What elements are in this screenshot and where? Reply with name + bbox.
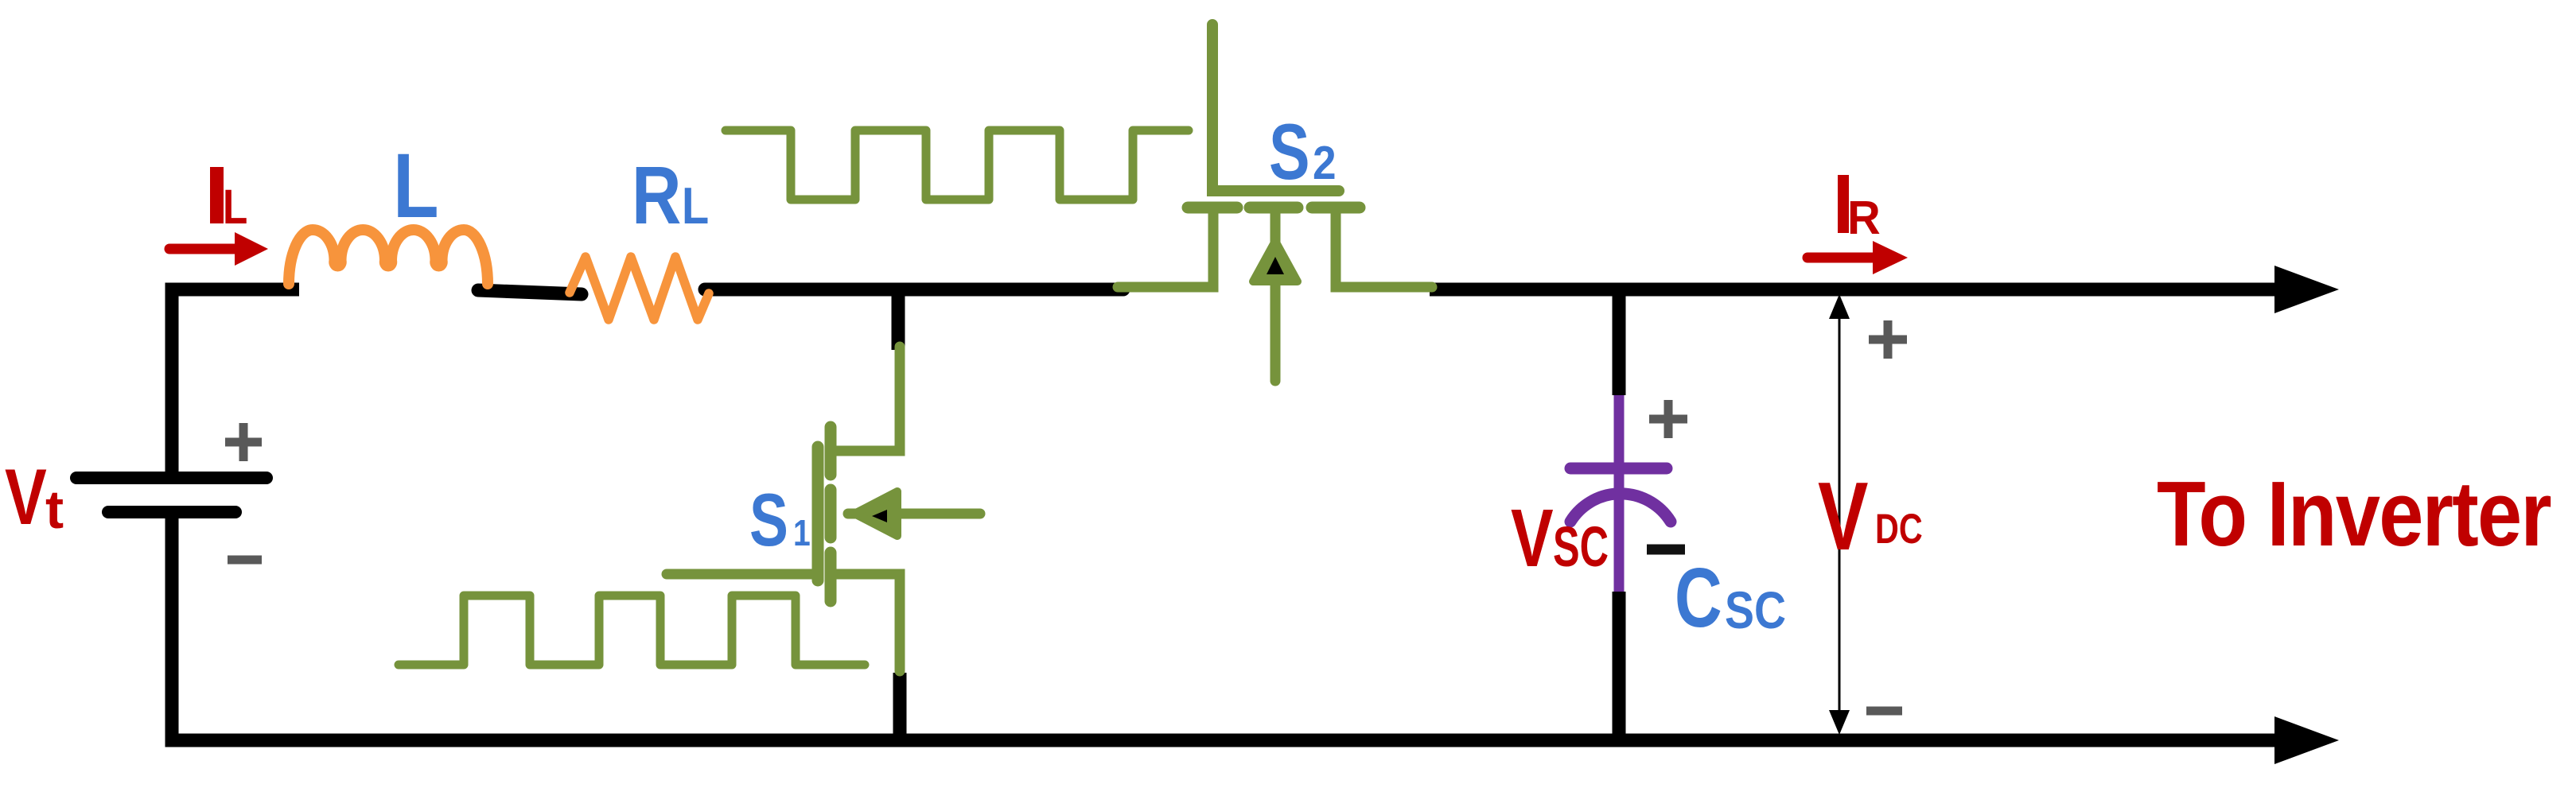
- transistor S1 body bar: [825, 490, 837, 538]
- transistor S2 source lead: [1336, 212, 1432, 287]
- transistor S1 gate line: [812, 447, 824, 580]
- svg-text:R: R: [632, 150, 681, 242]
- battery minus sign: [228, 556, 262, 565]
- supercap plus sign: [1649, 400, 1687, 438]
- svg-text:S: S: [749, 478, 788, 561]
- transistor S2 source bar: [1312, 202, 1360, 214]
- transistor S1 drain bar: [825, 427, 837, 475]
- supercap minus sign: [1647, 545, 1685, 555]
- transistor S2 drain lead: [1118, 212, 1213, 287]
- svg-text:SC: SC: [1553, 516, 1609, 580]
- svg-text:V: V: [1511, 491, 1554, 584]
- battery plus sign: [225, 423, 262, 461]
- capacitor CSC curved plate: [1570, 494, 1671, 522]
- arrow IL: [169, 244, 237, 254]
- output arrowhead top: [2274, 266, 2339, 313]
- svg-text:C: C: [1675, 551, 1722, 645]
- svg-text:L: L: [393, 135, 439, 237]
- transistor S1 drain lead: [831, 347, 900, 451]
- transistor S1 gate lead: [667, 569, 818, 580]
- transistor S2 drain bar: [1188, 202, 1237, 214]
- transistor S1 source lead: [831, 574, 900, 671]
- S1 pwm square wave: [399, 596, 865, 665]
- label IL current: [210, 167, 224, 223]
- battery Vt top plate: [76, 472, 267, 484]
- svg-text:L: L: [223, 180, 247, 234]
- svg-text:V: V: [5, 453, 47, 541]
- transistor S2 gate lead: [1212, 25, 1339, 191]
- svg-text:S: S: [1269, 108, 1310, 196]
- svg-text:L: L: [682, 177, 709, 235]
- svg-text:SC: SC: [1725, 580, 1786, 639]
- svg-text:V: V: [1818, 463, 1868, 571]
- arrow IR: [1807, 253, 1873, 263]
- transistor S1 source bar: [825, 553, 837, 601]
- S2 pwm square wave: [726, 130, 1189, 200]
- wire between inductor and resistor: [478, 290, 582, 294]
- wire from S2 source to output: [1430, 283, 2277, 297]
- svg-text:1: 1: [793, 513, 811, 554]
- svg-text:To Inverter: To Inverter: [2157, 464, 2551, 566]
- supercap vertical lead: [1614, 395, 1625, 592]
- wire bottom rail: [172, 514, 2277, 740]
- transistor S1 body arrow: [854, 491, 897, 536]
- wire S1 drain branch: [892, 289, 905, 350]
- wire supercap top branch: [1613, 289, 1626, 395]
- VDC plus sign: [1869, 320, 1907, 359]
- VDC measure arrow: [1839, 305, 1841, 724]
- transistor S2 body arrow: [1253, 241, 1298, 281]
- transistor S2 body lead: [1270, 211, 1281, 381]
- label IR current: [1838, 175, 1849, 233]
- wire top-left from battery to inductor: [172, 289, 299, 476]
- inductor L: [289, 230, 488, 284]
- wire supercap bottom branch: [1613, 592, 1626, 740]
- wire S1 source branch: [893, 673, 907, 740]
- output arrowhead bottom: [2274, 716, 2339, 764]
- transistor S2 body bar: [1250, 202, 1298, 214]
- wire from resistor to S2 drain: [705, 283, 1123, 297]
- VDC minus sign: [1866, 707, 1902, 716]
- capacitor CSC top plate: [1570, 463, 1667, 475]
- transistor S1 body lead: [848, 509, 980, 519]
- svg-text:2: 2: [1313, 136, 1337, 188]
- svg-text:t: t: [45, 479, 64, 540]
- svg-text:DC: DC: [1875, 506, 1923, 553]
- svg-text:R: R: [1847, 192, 1881, 244]
- resistor RL: [570, 257, 709, 320]
- battery Vt bottom plate: [108, 506, 235, 518]
